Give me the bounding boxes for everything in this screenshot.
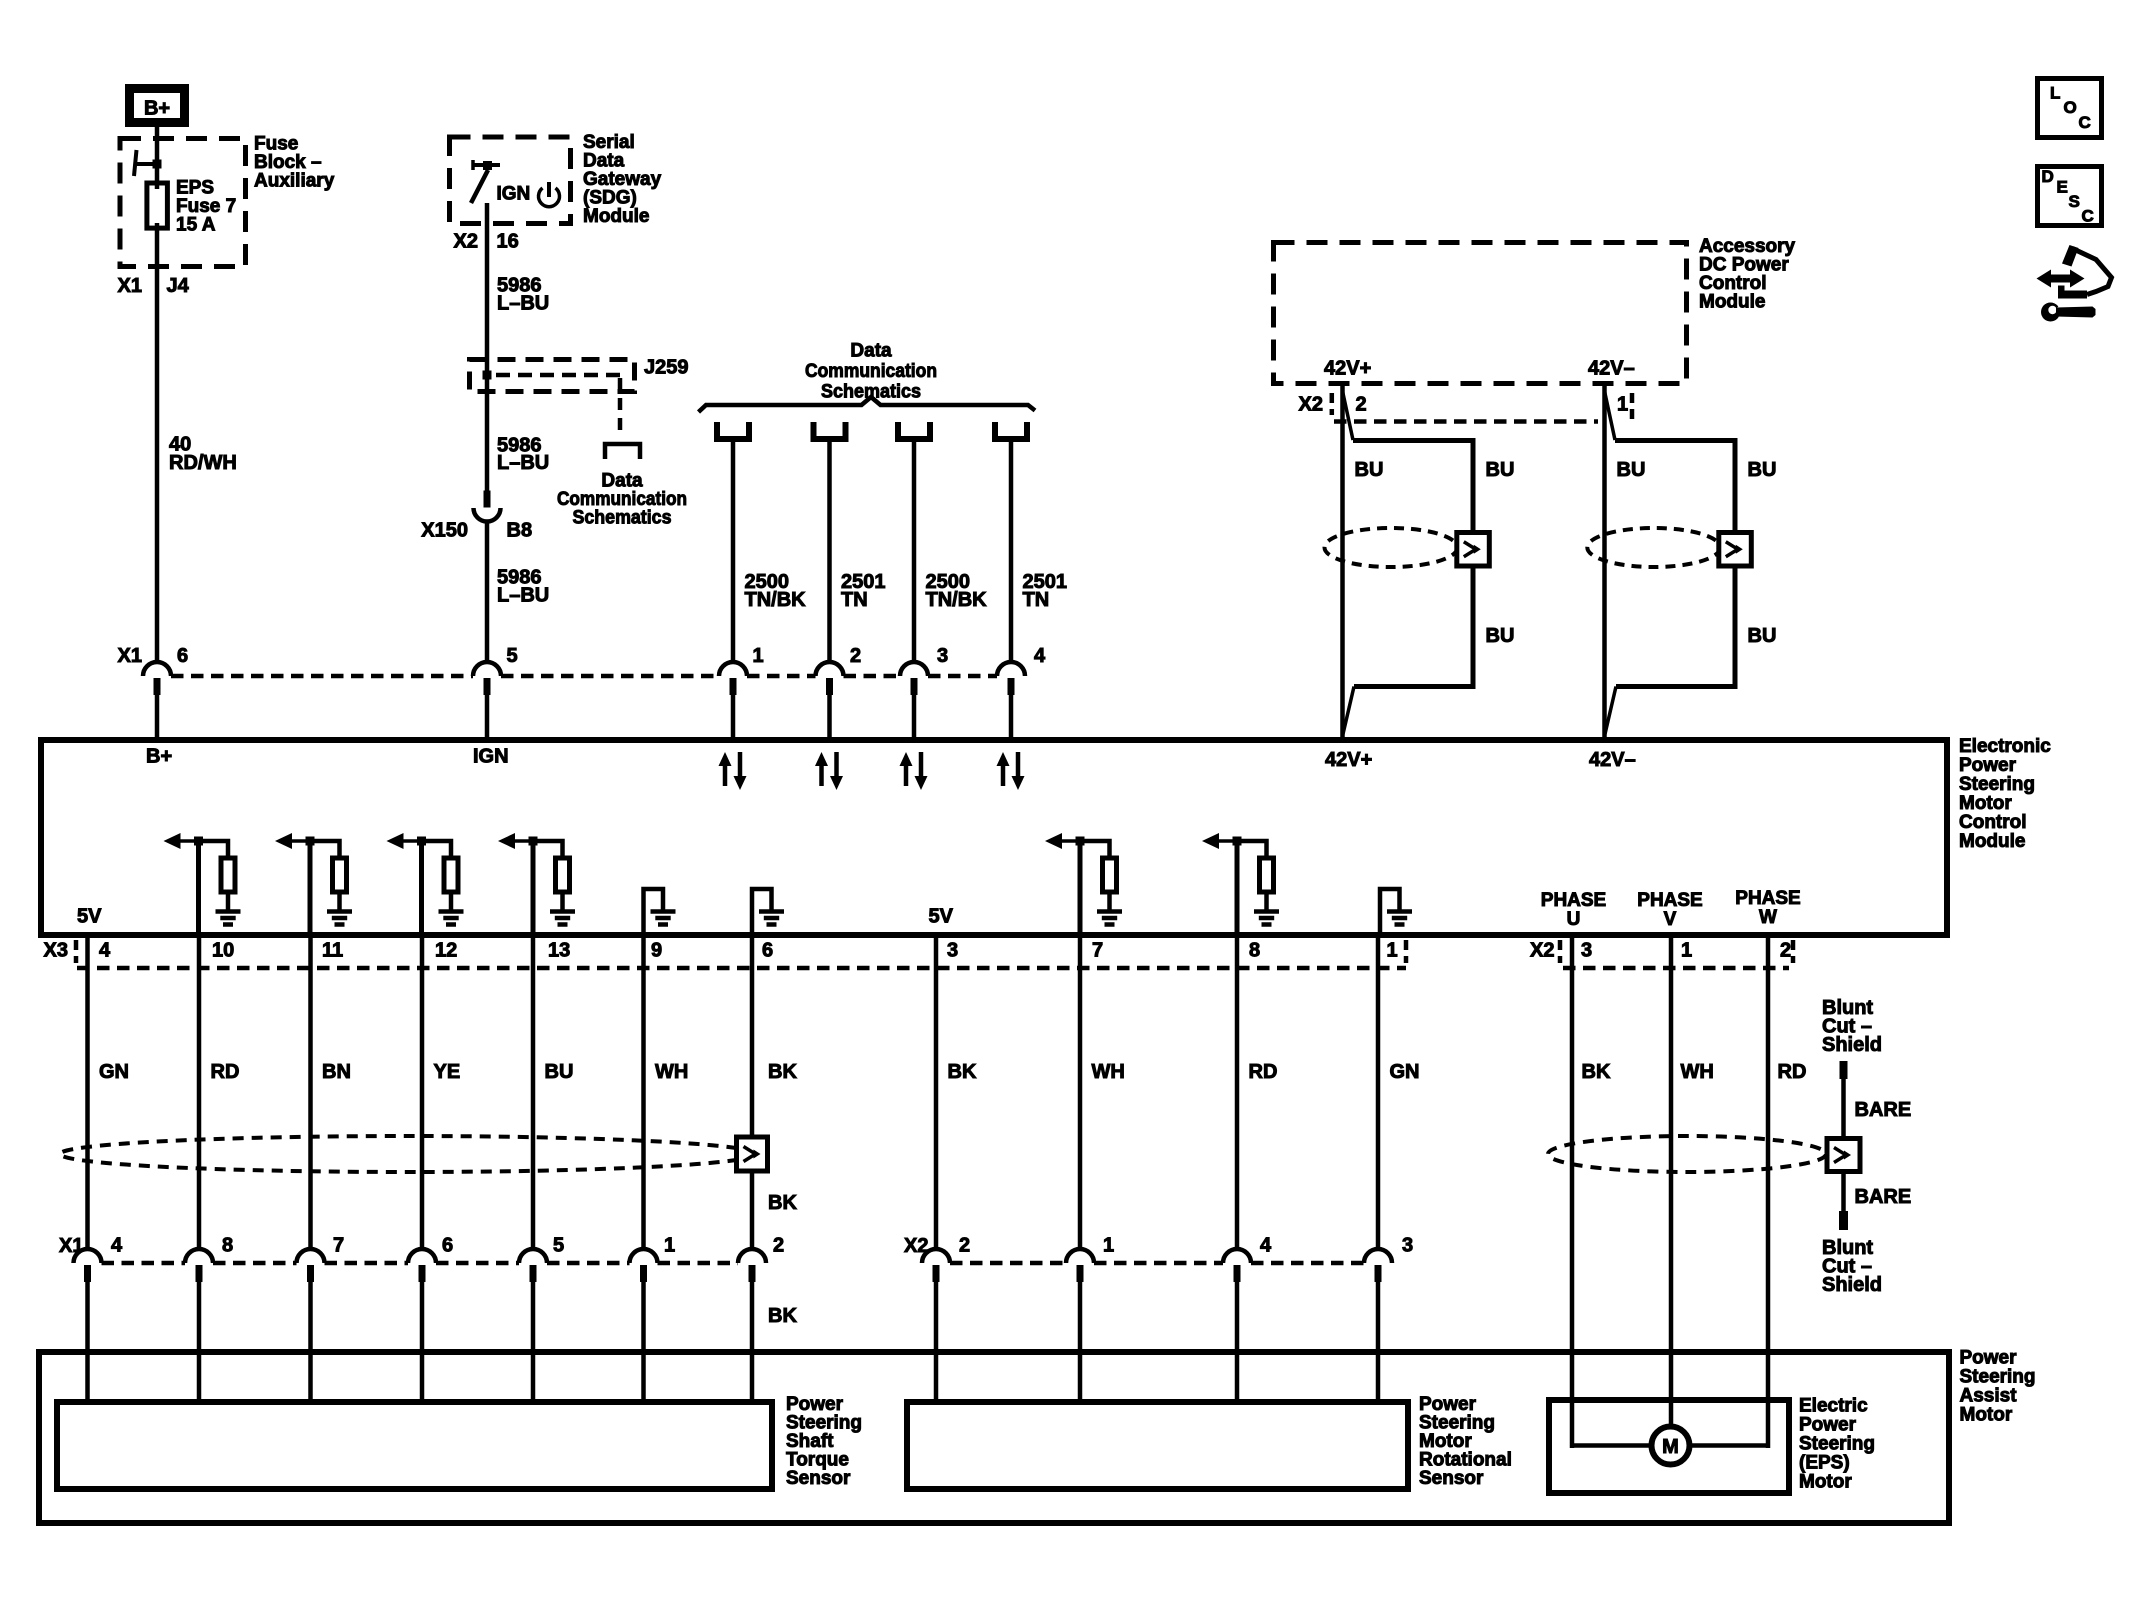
svg-text:C: C [2079, 113, 2091, 132]
DESC reference box [2038, 167, 2102, 226]
resistor (internal) [1237, 841, 1267, 857]
wire phase WH x=1671 [1669, 935, 1674, 1427]
svg-text:BU: BU [1617, 459, 1646, 481]
svg-text:Sensor: Sensor [1419, 1468, 1484, 1489]
wire serial data 2500 TN/BK [731, 442, 736, 664]
wire 42V plus BU [1340, 386, 1345, 737]
wire phase RD x=1768 [1766, 935, 1771, 1448]
connector X2 pin labels [959, 1235, 1413, 1257]
svg-text:X1: X1 [118, 645, 142, 667]
svg-text:1: 1 [664, 1235, 675, 1257]
reference fork to data communication schematics [605, 444, 640, 459]
power steering shaft torque sensor box [57, 1402, 772, 1489]
svg-text:BK: BK [768, 1305, 797, 1327]
wire to sensor [197, 1280, 202, 1405]
svg-text:6: 6 [177, 645, 188, 667]
wire sensor input pin lead x=421.5 [419, 841, 424, 935]
connector pass squiggle bottom [1343, 687, 1354, 735]
junction dot [529, 837, 538, 846]
connector bump X1 bottom x=199 [185, 1249, 213, 1282]
shield drain box on BK [737, 1137, 768, 1171]
svg-text:5V: 5V [77, 906, 102, 928]
data in/out arrows [819, 764, 824, 786]
connector bump X1 bottom x=752 [738, 1249, 766, 1282]
resistor (internal) [533, 841, 563, 857]
connector X2 dashed line (bottom) [950, 1261, 1364, 1266]
connector bump X1 x=733 [719, 662, 747, 695]
accessory module label [1699, 236, 1796, 313]
svg-text:2: 2 [850, 645, 861, 667]
svg-text:BN: BN [322, 1061, 351, 1083]
shield ellipse [1325, 528, 1458, 567]
data in/out arrows [723, 764, 728, 786]
svg-text:Electronic: Electronic [1959, 736, 2051, 757]
svg-text:X1: X1 [118, 275, 142, 297]
svg-text:GN: GN [1390, 1061, 1420, 1083]
module label [1959, 736, 2051, 852]
fuse block auxiliary dashed box [120, 139, 246, 267]
svg-text:Steering: Steering [1799, 1434, 1875, 1455]
connector X2 row labels [1299, 394, 1629, 416]
data communication schematics heading [805, 341, 937, 403]
wire below bump [731, 693, 736, 740]
connector X2 pin 16 labels [454, 231, 519, 253]
wire serial data 2501 TN [827, 442, 832, 664]
svg-text:8: 8 [1249, 940, 1260, 962]
wire sensor input pin lead x=310 [308, 841, 313, 935]
connector X1 J4 labels [118, 275, 190, 297]
svg-text:X150: X150 [421, 520, 468, 542]
wire label 5986 L-BU (middle) [497, 435, 549, 475]
fuse value label [176, 178, 236, 236]
pull-up output arrow [391, 839, 422, 843]
ignition switch symbol [471, 160, 500, 203]
wire BK x=752 [750, 935, 755, 1250]
wire WH x=643.5 [641, 935, 646, 1250]
wire to sensor [1376, 1280, 1381, 1405]
terminal lug serial data line 2 [814, 422, 846, 439]
svg-text:Power: Power [1959, 755, 2017, 776]
blunt cut stub upper [1840, 1061, 1848, 1079]
wire below bump [1009, 693, 1014, 740]
connector bump X1 bottom x=422 [408, 1249, 436, 1282]
connector bump X1 x=914 [900, 662, 928, 695]
svg-text:TN/BK: TN/BK [926, 589, 988, 611]
wire below bump [912, 693, 917, 740]
pull-up output arrow [1206, 839, 1237, 843]
svg-text:IGN: IGN [473, 746, 509, 768]
resistor (internal) [199, 841, 229, 857]
wire YE x=422 [420, 935, 425, 1250]
svg-text:Steering: Steering [1959, 774, 2035, 795]
wire 42V minus BU [1602, 386, 1607, 737]
svg-text:L: L [2050, 84, 2060, 103]
junction dot [1233, 837, 1242, 846]
svg-text:WH: WH [1092, 1061, 1125, 1083]
shield loop [1353, 441, 1473, 687]
svg-text:Schematics: Schematics [573, 508, 672, 529]
svg-text:BU: BU [1355, 459, 1384, 481]
wire BU x=533 [531, 935, 536, 1250]
svg-text:Data: Data [850, 341, 892, 362]
svg-text:8: 8 [222, 1235, 233, 1257]
LOC reference box [2038, 79, 2102, 138]
wire 5986 L-BU below X150 [485, 520, 490, 664]
svg-text:Electric: Electric [1799, 1396, 1868, 1417]
svg-text:Auxiliary: Auxiliary [254, 171, 335, 192]
svg-text:Shield: Shield [1822, 1274, 1882, 1296]
wire serial data 2501 TN [1009, 442, 1014, 664]
ground (internal) [1254, 909, 1279, 914]
svg-text:2: 2 [959, 1235, 970, 1257]
svg-text:2: 2 [1356, 394, 1367, 416]
serial data gateway (SDG) module dashed box [450, 137, 571, 224]
J259 inner bus [496, 375, 620, 437]
ground (internal) [439, 909, 464, 914]
power steering motor rotational sensor box [907, 1402, 1408, 1489]
svg-text:RD: RD [211, 1061, 240, 1083]
pull-up output arrow [1049, 839, 1080, 843]
wire below bump [485, 693, 490, 740]
connector bump X1 x=157 [143, 662, 171, 695]
net label PHASE W [1735, 888, 1800, 928]
connector bump X2 bottom x=1378 [1364, 1249, 1392, 1282]
pull-up output arrow [279, 839, 310, 843]
connector X2 dashed line [1334, 419, 1598, 424]
wire BARE upper [1841, 1079, 1846, 1137]
svg-text:Module: Module [583, 206, 650, 227]
svg-text:1: 1 [753, 645, 764, 667]
svg-text:O: O [2064, 98, 2077, 117]
svg-text:(EPS): (EPS) [1799, 1453, 1850, 1474]
svg-text:PHASE: PHASE [1541, 890, 1606, 911]
svg-text:3: 3 [947, 940, 958, 962]
svg-text:BU: BU [1486, 625, 1515, 647]
ground (internal) [759, 909, 784, 914]
shield drain box (phase) [1827, 1139, 1860, 1172]
connector X1 dashed line (bottom) [102, 1261, 739, 1266]
svg-text:TN: TN [841, 589, 868, 611]
connector bump X2 bottom x=1237 [1223, 1249, 1251, 1282]
fuse block label [254, 134, 335, 192]
svg-text:42V+: 42V+ [1324, 358, 1371, 380]
svg-text:Steering: Steering [1960, 1367, 2036, 1388]
svg-text:PHASE: PHASE [1735, 888, 1800, 909]
inline connector X150 pin B8 [474, 491, 501, 522]
wire ground pin lead x=1380 [1380, 889, 1400, 935]
wire to sensor [85, 1280, 90, 1405]
svg-text:C: C [2082, 207, 2094, 226]
svg-text:RD: RD [1778, 1061, 1807, 1083]
wire ground pin lead x=752 [752, 889, 772, 935]
svg-text:1: 1 [1617, 394, 1628, 416]
svg-text:Module: Module [1699, 292, 1766, 313]
shield drain box [1457, 533, 1490, 567]
svg-text:E: E [2057, 178, 2068, 197]
connector X1 pin labels [111, 1235, 784, 1257]
svg-text:BU: BU [1748, 459, 1777, 481]
wire sensor input pin lead x=533 [531, 841, 536, 935]
wire label 5986 L-BU (upper) [497, 275, 549, 315]
node B+ battery feed box [130, 89, 185, 123]
junction dot [194, 837, 203, 846]
svg-text:RD/WH: RD/WH [169, 452, 237, 474]
svg-text:6: 6 [442, 1235, 453, 1257]
svg-text:W: W [1759, 907, 1777, 928]
svg-text:TN/BK: TN/BK [745, 589, 807, 611]
svg-text:BARE: BARE [1855, 1186, 1912, 1208]
connector X1 dashed line [171, 674, 997, 679]
svg-text:7: 7 [333, 1235, 344, 1257]
ground (internal) [327, 909, 352, 914]
svg-text:Module: Module [1959, 831, 2026, 852]
wire label 2501 TN [841, 571, 886, 611]
connector pass squiggle top [1343, 391, 1354, 440]
svg-text:BARE: BARE [1855, 1099, 1912, 1121]
data in/out arrows [1001, 764, 1006, 786]
net label PHASE V [1637, 890, 1702, 930]
svg-text:4: 4 [111, 1235, 123, 1257]
data communication schematics note (J259) [557, 471, 687, 529]
wire label 2500 TN/BK [745, 571, 807, 611]
svg-text:BK: BK [948, 1061, 977, 1083]
svg-text:11: 11 [322, 940, 343, 962]
svg-text:GN: GN [99, 1061, 129, 1083]
wire GN x=1378 [1376, 935, 1381, 1250]
svg-text:V: V [1664, 909, 1677, 930]
svg-text:B8: B8 [507, 520, 533, 542]
svg-text:L–BU: L–BU [497, 585, 549, 607]
ground (internal) [1387, 909, 1412, 914]
EPS motor label [1799, 1396, 1875, 1493]
wire BARE lower [1841, 1172, 1846, 1212]
wire 40 RD/WH from B+ to module [155, 127, 160, 664]
svg-text:42V–: 42V– [1589, 749, 1636, 771]
svg-text:WH: WH [1681, 1061, 1714, 1083]
connector bump X1 x=829.5 [816, 662, 844, 695]
electric power steering (EPS) motor box [1549, 1400, 1789, 1493]
wire serial data 2500 TN/BK [912, 442, 917, 664]
svg-text:3: 3 [1402, 1235, 1413, 1257]
wire to sensor [641, 1280, 646, 1405]
ground (internal) [651, 909, 676, 914]
wire BK x=936 [934, 935, 939, 1250]
connector bump X2 bottom x=936 [922, 1249, 950, 1282]
SDG module label [583, 132, 662, 227]
motor M1 [1652, 1427, 1690, 1465]
svg-text:2: 2 [1780, 940, 1791, 962]
terminal lug serial data line 1 [717, 422, 749, 439]
svg-text:X2: X2 [1530, 940, 1554, 962]
connector bump X1 bottom x=310.5 [297, 1249, 325, 1282]
connector pass squiggle top [1605, 391, 1616, 440]
IGN label and power icon [497, 182, 560, 207]
svg-text:Motor: Motor [1799, 1472, 1852, 1493]
wire below bump [827, 693, 832, 740]
wire to sensor [1078, 1280, 1083, 1405]
svg-text:Sensor: Sensor [786, 1468, 851, 1489]
wire phase BK x=1572 [1570, 935, 1575, 1448]
connector bump X1 bottom x=643.5 [630, 1249, 658, 1282]
svg-text:YE: YE [434, 1061, 461, 1083]
svg-text:4: 4 [99, 940, 111, 962]
svg-text:15 A: 15 A [176, 215, 216, 236]
svg-text:BK: BK [768, 1061, 797, 1083]
svg-text:M: M [1662, 1436, 1679, 1458]
junction dot [306, 837, 315, 846]
svg-text:4: 4 [1034, 645, 1046, 667]
wire WH x=1080 [1078, 935, 1083, 1250]
svg-text:9: 9 [651, 940, 662, 962]
shield drain box [1719, 533, 1752, 567]
svg-text:X2: X2 [454, 231, 478, 253]
wire label 2501 TN [1023, 571, 1068, 611]
svg-text:BK: BK [1582, 1061, 1611, 1083]
wire label 5986 L-BU (lower) [497, 567, 549, 607]
accessory DC power control module dashed box [1274, 243, 1687, 384]
svg-text:Power: Power [1960, 1348, 2018, 1369]
shield ellipse (phase harness) [1548, 1136, 1826, 1172]
svg-text:1: 1 [1387, 940, 1398, 962]
svg-text:B+: B+ [144, 98, 170, 120]
ground (internal) [216, 909, 241, 914]
wire to sensor [531, 1280, 536, 1405]
svg-text:BU: BU [545, 1061, 574, 1083]
svg-text:WH: WH [655, 1061, 688, 1083]
svg-text:13: 13 [548, 940, 570, 962]
blunt cut shield label (lower) [1822, 1237, 1882, 1296]
svg-text:7: 7 [1092, 940, 1103, 962]
svg-text:2: 2 [773, 1235, 784, 1257]
brace bracket [699, 397, 1036, 412]
wire sensor input pin lead x=1080 [1078, 841, 1083, 935]
wire below bump [155, 693, 160, 740]
resistor (internal) [1080, 841, 1110, 857]
connector X1 row at module [118, 645, 1047, 667]
wire RD x=1237 [1235, 935, 1240, 1250]
svg-text:3: 3 [1581, 940, 1592, 962]
svg-text:D: D [2042, 167, 2054, 186]
wire to sensor [308, 1280, 313, 1405]
svg-text:Assist: Assist [1960, 1386, 2018, 1407]
ground (internal) [1097, 909, 1122, 914]
svg-text:X2: X2 [1299, 394, 1323, 416]
connector X2 dashed line (phase) [1563, 966, 1789, 971]
junction dot [483, 161, 492, 170]
wire label 2500 TN/BK [926, 571, 988, 611]
wire labels BU [1355, 459, 1515, 647]
svg-text:J4: J4 [167, 275, 190, 297]
svg-text:12: 12 [435, 940, 457, 962]
connector cavity marks [1332, 393, 1632, 424]
pull-up output arrow [168, 839, 199, 843]
connector X3 dashed line [77, 966, 1406, 971]
connector bump X1 x=1011 [997, 662, 1025, 695]
wire to sensor [420, 1280, 425, 1405]
wire sensor input pin lead x=1237 [1235, 841, 1240, 935]
wire GN x=87.5 [85, 935, 90, 1250]
junction dot J259 [483, 371, 492, 380]
connector bump X1 bottom x=87.5 [74, 1249, 102, 1282]
svg-text:10: 10 [212, 940, 234, 962]
svg-text:42V–: 42V– [1588, 358, 1635, 380]
connector X3 row labels [44, 940, 1398, 962]
svg-text:J259: J259 [644, 357, 689, 379]
terminal lug serial data line 3 [898, 422, 930, 439]
data in/out arrows [904, 764, 909, 786]
torque sensor label [786, 1394, 862, 1489]
svg-text:U: U [1567, 909, 1581, 930]
svg-text:L–BU: L–BU [497, 293, 549, 315]
junction dot [1076, 837, 1085, 846]
svg-text:X3: X3 [44, 940, 68, 962]
svg-text:Control: Control [1959, 812, 2027, 833]
blunt cut shield label (upper) [1822, 997, 1882, 1056]
connector cavity marks bottom [76, 940, 1793, 963]
wire RD x=199 [197, 935, 202, 1250]
svg-text:1: 1 [1103, 1235, 1114, 1257]
svg-text:Motor: Motor [1959, 793, 2012, 814]
svg-text:16: 16 [497, 231, 519, 253]
fuse EPS Fuse 7 15 A [147, 183, 168, 228]
svg-text:S: S [2069, 192, 2080, 211]
svg-text:Shield: Shield [1822, 1034, 1882, 1056]
svg-text:5: 5 [507, 645, 518, 667]
connector X2 row labels (phase) [1530, 940, 1791, 962]
wire labels BU [1617, 459, 1777, 647]
svg-text:5V: 5V [929, 906, 954, 928]
svg-text:L–BU: L–BU [497, 452, 549, 474]
svg-text:BU: BU [1486, 459, 1515, 481]
svg-text:BK: BK [768, 1192, 797, 1214]
blunt cut stub lower [1839, 1211, 1848, 1230]
svg-text:4: 4 [1260, 1235, 1272, 1257]
terminal lug serial data line 4 [995, 422, 1027, 439]
svg-text:Motor: Motor [1960, 1405, 2013, 1426]
svg-text:3: 3 [937, 645, 948, 667]
wire to sensor [934, 1280, 939, 1405]
shield ellipse [1587, 528, 1720, 567]
shield loop [1615, 441, 1735, 687]
assist motor label [1960, 1348, 2036, 1426]
junction dot [417, 837, 426, 846]
wire 5986 L-BU from SDG [485, 203, 490, 492]
connector pass squiggle bottom [1605, 687, 1616, 735]
connector bump X2 bottom x=1080 [1066, 1249, 1094, 1282]
svg-text:RD: RD [1249, 1061, 1278, 1083]
wire sensor input pin lead x=198.5 [196, 841, 201, 935]
tool/navigation icon [2037, 245, 2112, 322]
svg-text:6: 6 [762, 940, 773, 962]
svg-text:IGN: IGN [497, 184, 531, 205]
net label PHASE U [1541, 890, 1606, 930]
wire to sensor [750, 1280, 755, 1405]
connector bump X1 bottom x=533 [519, 1249, 547, 1282]
wire label 40 RD/WH [169, 434, 237, 475]
X150 B8 labels [421, 520, 532, 542]
junction dot [153, 160, 162, 169]
wire BN x=310.5 [308, 935, 313, 1250]
svg-text:1: 1 [1681, 940, 1692, 962]
pull-up output arrow [502, 839, 533, 843]
resistor (internal) [422, 841, 452, 857]
shield ellipse (torque sensor harness) [60, 1136, 756, 1172]
power steering assist motor outer box [39, 1352, 1949, 1523]
wire to sensor [1235, 1280, 1240, 1405]
svg-text:PHASE: PHASE [1637, 890, 1702, 911]
rotational sensor label [1419, 1394, 1512, 1489]
svg-text:5: 5 [553, 1235, 564, 1257]
